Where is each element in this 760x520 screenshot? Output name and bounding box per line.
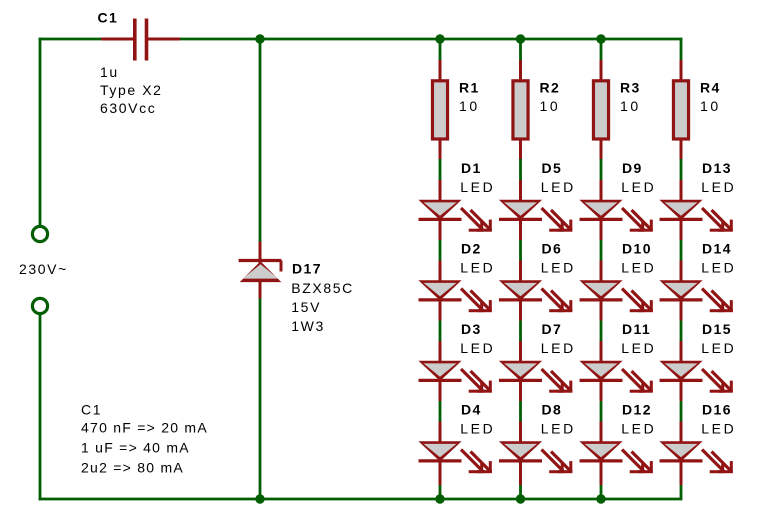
junction <box>435 494 444 503</box>
svg-text:D10: D10 <box>622 240 652 256</box>
wire top stub to R4 <box>680 39 683 61</box>
LED D15 <box>659 341 733 401</box>
svg-text:D4: D4 <box>461 401 482 417</box>
svg-text:LED: LED <box>701 260 736 276</box>
wire between LEDs <box>519 321 522 342</box>
junction <box>516 494 525 503</box>
wire between LEDs <box>680 240 683 261</box>
LED D11 <box>579 341 653 401</box>
svg-text:D1: D1 <box>461 160 482 176</box>
svg-text:R2: R2 <box>540 79 561 95</box>
LED D7 <box>499 341 573 401</box>
junction <box>435 34 444 43</box>
wire top stub to R3 <box>600 39 603 61</box>
svg-text:LED: LED <box>460 421 495 437</box>
svg-text:15V: 15V <box>291 299 321 315</box>
svg-text:D17: D17 <box>292 261 322 277</box>
svg-text:D13: D13 <box>702 160 732 176</box>
svg-text:10: 10 <box>620 98 641 114</box>
svg-text:D2: D2 <box>461 240 482 256</box>
LED D14 <box>659 261 733 321</box>
svg-text:2u2 => 80 mA: 2u2 => 80 mA <box>81 460 184 476</box>
svg-text:10: 10 <box>540 98 561 114</box>
LED D9 <box>579 180 653 240</box>
svg-text:C1: C1 <box>81 402 102 418</box>
svg-text:D15: D15 <box>702 321 732 337</box>
svg-text:LED: LED <box>621 260 656 276</box>
wire between LEDs <box>680 321 683 342</box>
svg-text:LED: LED <box>701 179 736 195</box>
wire between LEDs <box>680 401 683 422</box>
svg-text:LED: LED <box>701 421 736 437</box>
wire between LEDs <box>600 401 603 422</box>
svg-text:D6: D6 <box>542 240 563 256</box>
wire top stub to R1 <box>439 39 442 61</box>
wire R2 to first LED <box>519 159 522 182</box>
svg-text:LED: LED <box>460 260 495 276</box>
wire top-left from AC terminal to C1 <box>40 38 101 41</box>
wire top stub to R2 <box>519 39 522 61</box>
svg-text:D8: D8 <box>542 401 563 417</box>
svg-text:1 uF => 40 mA: 1 uF => 40 mA <box>81 440 190 456</box>
svg-text:1u: 1u <box>100 64 119 80</box>
svg-text:230V~: 230V~ <box>19 261 68 277</box>
wire top bus from C1 to top-right corner <box>180 38 681 41</box>
svg-text:LED: LED <box>621 421 656 437</box>
LED D3 <box>418 341 492 401</box>
wire between LEDs <box>519 240 522 261</box>
wire last LED to bottom bus <box>600 485 603 500</box>
resistor R3 <box>592 60 610 159</box>
svg-text:LED: LED <box>541 179 576 195</box>
svg-text:D3: D3 <box>461 321 482 337</box>
svg-text:D7: D7 <box>542 321 563 337</box>
junction <box>255 34 264 43</box>
LED D6 <box>499 261 573 321</box>
wire between LEDs <box>439 401 442 422</box>
svg-text:1W3: 1W3 <box>291 318 325 334</box>
svg-text:LED: LED <box>701 340 736 356</box>
wire last LED to bottom bus <box>680 485 683 500</box>
LED D16 <box>659 422 733 486</box>
LED D13 <box>659 180 733 240</box>
svg-text:LED: LED <box>460 340 495 356</box>
svg-text:LED: LED <box>541 340 576 356</box>
svg-text:D9: D9 <box>622 160 643 176</box>
wire D17 branch vertical top <box>259 39 262 242</box>
wire between LEDs <box>600 240 603 261</box>
svg-text:D11: D11 <box>622 321 651 337</box>
junction <box>596 34 605 43</box>
resistor R4 <box>672 60 690 159</box>
wire last LED to bottom bus <box>519 485 522 500</box>
wire left vertical from AC pin 2 to bottom corner <box>39 315 42 500</box>
svg-text:D14: D14 <box>702 240 732 256</box>
wire R1 to first LED <box>439 159 442 182</box>
svg-text:D5: D5 <box>542 160 563 176</box>
svg-text:LED: LED <box>621 179 656 195</box>
junction <box>596 494 605 503</box>
junction <box>516 34 525 43</box>
LED D1 <box>418 180 492 240</box>
svg-text:LED: LED <box>541 260 576 276</box>
wire between LEDs <box>439 240 442 261</box>
capacitor C1 <box>101 19 180 61</box>
junction <box>255 494 264 503</box>
svg-text:LED: LED <box>541 421 576 437</box>
wire between LEDs <box>519 401 522 422</box>
wire left vertical from top corner to AC pin 1 <box>39 39 42 226</box>
svg-text:D12: D12 <box>622 401 652 417</box>
resistor R1 <box>431 60 449 159</box>
svg-text:R3: R3 <box>620 79 641 95</box>
LED D8 <box>499 422 573 486</box>
svg-text:R4: R4 <box>700 79 721 95</box>
LED D4 <box>418 422 492 486</box>
wire bottom bus <box>40 498 681 501</box>
svg-text:LED: LED <box>621 340 656 356</box>
svg-text:10: 10 <box>700 98 721 114</box>
svg-text:D16: D16 <box>702 401 732 417</box>
LED D5 <box>499 180 573 240</box>
LED D10 <box>579 261 653 321</box>
svg-text:BZX85C: BZX85C <box>291 280 354 296</box>
wire R4 to first LED <box>680 159 683 182</box>
svg-text:470 nF => 20 mA: 470 nF => 20 mA <box>81 420 208 436</box>
wire between LEDs <box>600 321 603 342</box>
svg-text:Type X2: Type X2 <box>100 82 163 98</box>
AC terminal pin top <box>32 226 47 241</box>
wire D17 branch vertical bottom <box>259 298 262 499</box>
LED D12 <box>579 422 653 486</box>
zener diode D17 <box>239 242 282 299</box>
wire R3 to first LED <box>600 159 603 182</box>
LED D2 <box>418 261 492 321</box>
svg-text:10: 10 <box>459 98 480 114</box>
resistor R2 <box>511 60 529 159</box>
wire last LED to bottom bus <box>439 485 442 500</box>
svg-text:C1: C1 <box>98 10 119 26</box>
svg-text:630Vcc: 630Vcc <box>100 100 156 116</box>
svg-text:R1: R1 <box>459 79 480 95</box>
svg-text:LED: LED <box>460 179 495 195</box>
wire between LEDs <box>439 321 442 342</box>
AC terminal pin bottom <box>32 298 47 313</box>
